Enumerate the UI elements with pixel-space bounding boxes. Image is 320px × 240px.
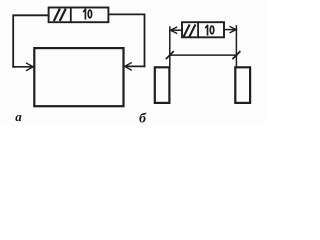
tolerance frame B <box>182 22 224 37</box>
wire: left leader of figure a (from frame left edge, runs left then down) <box>13 15 48 67</box>
right plate rectangle of figure b <box>235 67 250 103</box>
wire: left leader horizontal run to arrow <box>13 66 32 68</box>
extension line left (up from left plate inner face) <box>169 27 171 67</box>
tolerance frame A <box>49 8 109 23</box>
big plate rectangle of figure a <box>34 48 123 106</box>
parallelism symbol // in frame B <box>184 25 195 36</box>
left plate rectangle of figure b <box>155 67 170 103</box>
dimension line between extension lines <box>170 54 237 56</box>
svg-text:а: а <box>15 109 22 124</box>
extension line right (up from right plate inner face) <box>235 26 237 67</box>
value 10 in frame B (digit 1 then digit 0) <box>206 26 214 35</box>
value 10 in frame A (digit 1 then digit 0) <box>84 10 92 19</box>
arrow: arrowhead pointing right at right extension line <box>230 27 236 33</box>
oblique tick at left dimension end <box>166 52 173 59</box>
parallelism symbol // in frame A <box>54 10 65 20</box>
oblique tick at right dimension end <box>233 52 240 59</box>
arrow: right arrowhead pointing left at big plate right face <box>125 63 132 70</box>
wire: right leader of figure a (from frame right edge, runs right then down) <box>108 14 144 66</box>
wire: leader from frame B right edge to right extension line <box>224 29 235 31</box>
label b (figure letter) <box>139 111 147 126</box>
arrow: left arrowhead pointing right at big plate left face <box>27 63 34 70</box>
label a (figure letter) <box>15 109 22 124</box>
wire: right leader horizontal run to arrow <box>126 65 145 67</box>
arrow: arrowhead pointing left at left extension line <box>170 27 176 33</box>
wire: leader from frame B left edge to left extension line <box>172 29 183 31</box>
svg-text:б: б <box>139 111 147 126</box>
